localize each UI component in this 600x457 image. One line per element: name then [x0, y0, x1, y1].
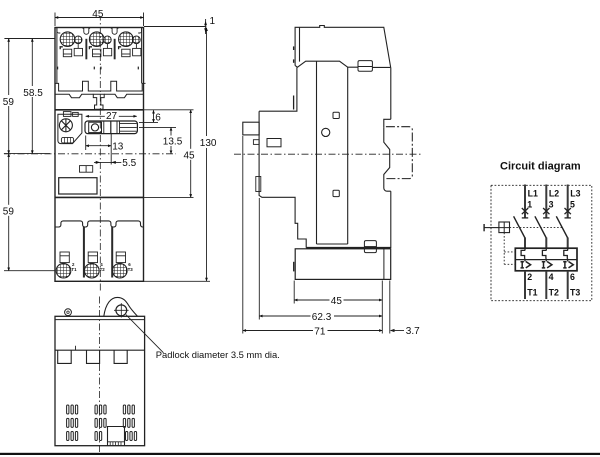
padlock hole — [116, 305, 127, 316]
svg-text:T3: T3 — [570, 288, 580, 298]
magnetic release pole1 — [521, 262, 531, 268]
clamp plate 3b — [103, 48, 111, 55]
din rail phantom — [386, 127, 412, 179]
side left edge nub b — [293, 59, 295, 62]
pole T1 wire lower — [524, 271, 526, 299]
dim 1 text — [210, 16, 216, 27]
nameplate label — [61, 137, 73, 143]
lower comb profile — [55, 221, 143, 227]
side extension x259.3 — [258, 198, 260, 320]
panel section line — [55, 109, 144, 111]
pole L1 wire mid — [524, 238, 526, 249]
label L2 — [549, 188, 559, 198]
dim 5.5 arrows — [96, 161, 116, 164]
mechanism box — [499, 222, 510, 233]
padlock tab arch — [104, 297, 138, 316]
top clip slot right edge — [138, 28, 141, 34]
band line left — [316, 61, 318, 244]
slider button frame — [89, 122, 102, 132]
side front face upper — [259, 28, 299, 112]
top clip hook 2 — [111, 28, 119, 35]
band hole bottom — [333, 190, 339, 196]
slider scale divider 1 — [103, 121, 105, 133]
L2 stamp — [89, 47, 92, 49]
side left edge nub a — [293, 46, 295, 50]
dim 59 lower text — [2, 205, 16, 218]
svg-text:71: 71 — [314, 327, 326, 338]
dim 45 side text — [330, 295, 344, 307]
dim 62.3 text — [311, 311, 335, 323]
linkage dotted stub magnetic — [504, 263, 515, 265]
pole L3 wire mid — [567, 238, 569, 249]
bottom view body — [55, 316, 145, 445]
linkage dotted stub thermal — [504, 251, 515, 253]
dim 45 top text — [90, 9, 109, 20]
svg-text:58.5: 58.5 — [23, 88, 43, 99]
dim 71 text — [313, 325, 328, 337]
dim 3.7 arrow — [390, 329, 395, 332]
dim 13 text — [112, 142, 124, 153]
vent slots group 3 — [123, 405, 136, 441]
bottom screw 6 — [113, 263, 128, 278]
contact cross pole2 — [543, 208, 549, 214]
contact bar pole1 — [522, 217, 528, 219]
SIDE VIEW — [234, 26, 421, 338]
inner side wall left — [56, 28, 58, 83]
terminal 6 — [570, 272, 575, 282]
breaker body outline front view — [55, 28, 144, 282]
slider scale marks — [120, 124, 137, 132]
bottom clamp 2 — [60, 252, 69, 263]
terminal 3 — [549, 200, 554, 210]
lower body inner line — [383, 249, 385, 280]
svg-text:Circuit diagram: Circuit diagram — [500, 160, 581, 172]
svg-text:45: 45 — [184, 151, 196, 162]
padlock leader line — [126, 315, 164, 353]
terminal screw 5 — [119, 32, 134, 47]
right edge lower — [390, 191, 392, 248]
bottom centerline — [99, 297, 101, 453]
thermal element pole3 — [564, 248, 568, 261]
current setting slider window — [85, 121, 137, 134]
contact bar pole2 — [543, 217, 549, 219]
dim 1 tick line — [205, 19, 207, 34]
vent slots group 1 — [67, 405, 78, 441]
dim 45 right extension bottom — [144, 196, 194, 198]
dim 3.7 text — [406, 326, 420, 337]
dim 6 text — [155, 113, 161, 124]
center I-beam latch — [93, 94, 104, 109]
mechanism handle bar — [483, 224, 485, 231]
page border bottom — [0, 453, 600, 455]
bottom clamp 4 — [88, 252, 97, 263]
svg-text:5.5: 5.5 — [122, 158, 136, 169]
notch pocket 2 — [87, 350, 100, 363]
svg-text:L1: L1 — [528, 188, 538, 198]
dim 59 upper extension — [4, 38, 55, 40]
side extension x389.8 — [389, 281, 391, 334]
padlock note text — [156, 349, 280, 360]
terminal screw 5b — [133, 36, 141, 44]
band hole circle — [322, 128, 330, 136]
dim 6 tick — [153, 110, 155, 122]
terminal screw 3b — [104, 36, 112, 44]
hinge marks lower — [293, 262, 295, 272]
dim 59 lower line — [8, 154, 10, 271]
dim 45 top line — [55, 17, 144, 19]
rotary knob housing — [58, 114, 82, 143]
svg-text:3.7: 3.7 — [406, 326, 420, 337]
pole L2 wire mid — [545, 238, 547, 249]
slider scale divider 4 — [119, 121, 121, 133]
svg-text:45: 45 — [331, 296, 343, 307]
svg-text:6: 6 — [155, 113, 161, 124]
L3 stamp — [119, 47, 122, 49]
dim 59 upper text — [2, 95, 16, 108]
dim 59 upper line — [8, 39, 10, 154]
bottom section line — [55, 349, 145, 351]
svg-text:L2: L2 — [549, 188, 559, 198]
dim 45 side line — [294, 299, 382, 301]
mechanism actuator line — [484, 227, 499, 229]
switch blade pole2 — [535, 216, 546, 238]
circuit boundary dashed box — [491, 185, 592, 300]
lower body block — [295, 249, 391, 280]
svg-text:59: 59 — [3, 207, 15, 218]
contact cross pole1 — [522, 208, 528, 214]
svg-text:T1: T1 — [527, 288, 537, 298]
dim 13 extension left — [85, 136, 87, 151]
relay box divider — [515, 259, 577, 261]
svg-text:62.3: 62.3 — [312, 312, 332, 323]
dim 45 top extension lines — [55, 13, 144, 27]
window aperture — [59, 178, 97, 194]
rotary reset knob — [59, 119, 72, 132]
vent slots group 2 — [95, 405, 106, 441]
top clip hook 1 — [83, 28, 91, 35]
stepped cover profile lower — [55, 94, 144, 97]
svg-text:T3: T3 — [128, 267, 134, 272]
dim 5.5 line — [94, 161, 121, 163]
svg-text:45: 45 — [92, 9, 104, 20]
side centerline — [234, 153, 421, 155]
contact bar pole3 — [565, 217, 571, 219]
dim 58.5 text — [22, 86, 44, 99]
clamp plate 5b — [133, 48, 141, 55]
dim 130 extension bottom — [144, 280, 210, 282]
svg-text:T2: T2 — [549, 288, 559, 298]
bottom screw 2 — [56, 263, 71, 278]
terminal number tick 5 — [137, 67, 139, 70]
label L1 — [528, 188, 538, 198]
clamp plate 1b — [74, 48, 82, 55]
small boss circle — [65, 309, 72, 316]
side extension x294.2 — [293, 281, 295, 304]
magnetic release pole3 — [563, 262, 573, 268]
label T2 — [549, 288, 559, 298]
overload relay box — [515, 248, 577, 271]
dim 3.7 tail — [392, 330, 404, 332]
dim 130 text — [198, 136, 217, 149]
thermal element pole1 — [521, 248, 525, 261]
terminal screw 3 — [89, 32, 104, 47]
lower barrier bar 2 — [111, 227, 113, 278]
svg-text:Padlock diameter 3.5 mm dia.: Padlock diameter 3.5 mm dia. — [156, 349, 280, 360]
dim 13.5 line — [170, 127, 172, 153]
terminal 5 — [570, 200, 575, 210]
svg-text:13: 13 — [112, 142, 124, 153]
FRONT DIMS — [2, 9, 217, 282]
slider button circle — [91, 124, 98, 131]
dim 1 arrows — [205, 26, 207, 28]
side extension x242.8 — [242, 136, 244, 334]
linkage dotted horizontal — [510, 227, 563, 229]
dim 1 extension line — [144, 26, 206, 28]
svg-text:130: 130 — [200, 138, 217, 149]
band line right — [347, 67, 349, 244]
side extension x382.3 — [381, 281, 383, 334]
slider scale divider 2 — [110, 121, 112, 133]
screw hole front block — [267, 139, 281, 147]
dim 13 line — [86, 145, 112, 147]
wire entry box — [108, 427, 125, 446]
section tick — [75, 346, 77, 350]
pole T3 wire lower — [567, 271, 569, 299]
terminal lug side — [243, 122, 259, 135]
label L3 — [570, 188, 580, 198]
CIRCUIT DIAGRAM — [484, 160, 592, 300]
vertical centerline — [99, 14, 101, 293]
top clip slot left edge — [57, 28, 60, 34]
notch pocket 3 — [114, 350, 127, 363]
din clip profile — [384, 128, 391, 191]
L1 stamp — [60, 47, 63, 49]
pole L2 wire upper — [545, 185, 547, 218]
lower section line — [55, 196, 144, 198]
svg-text:T1: T1 — [71, 267, 77, 272]
dim 59 bottom extension — [4, 270, 55, 272]
terminal number tick 1 — [57, 67, 59, 70]
inner side wall right — [141, 28, 143, 83]
band bottom — [317, 243, 348, 245]
side front face vertical — [259, 111, 306, 248]
slider scale divider 3 — [116, 121, 118, 133]
pole L3 wire upper — [567, 185, 569, 218]
hinge marks front — [293, 96, 295, 110]
svg-text:2: 2 — [527, 272, 532, 282]
extension line x111 — [110, 134, 112, 165]
side front slope — [295, 61, 390, 67]
test button pair — [80, 166, 93, 173]
magnetic release pole2 — [542, 262, 552, 268]
terminal label 6 T3 — [128, 262, 134, 272]
stepped cover profile upper — [55, 81, 146, 91]
dim 45 right text — [183, 149, 197, 162]
top latch clip — [358, 61, 372, 72]
bottom screw 4 — [85, 263, 100, 278]
knob slot cross — [61, 119, 70, 132]
phase barrier bar 2 — [114, 39, 116, 60]
linkage dotted vertical — [503, 233, 505, 265]
svg-text:1: 1 — [210, 16, 216, 27]
din rail hook top — [384, 119, 391, 128]
bottom view top inner line — [55, 319, 145, 321]
lug tab small — [253, 140, 259, 145]
dim 45 right line — [190, 110, 192, 198]
dim 45 right extension top — [144, 109, 194, 111]
label T1 — [527, 288, 537, 298]
mechanism box cross — [499, 222, 510, 233]
BOTTOM VIEW — [55, 297, 280, 453]
dim 62.3 line — [259, 315, 382, 317]
dim 5.5 text — [122, 158, 136, 169]
dim 27 text — [105, 111, 119, 123]
terminal screw 1b — [74, 36, 82, 44]
dim 130 line — [206, 28, 208, 281]
horizontal centerline — [4, 153, 176, 155]
terminal label 2 T1 — [71, 262, 77, 272]
clamp plate 3a — [93, 49, 101, 57]
terminal label 4 T2 — [100, 262, 106, 272]
terminal number tick 3 — [94, 67, 101, 70]
notch pocket 1 — [58, 350, 71, 363]
body bottom bold line — [306, 247, 391, 249]
dim 58.5 line — [31, 39, 33, 154]
padlock hole cross — [114, 303, 129, 317]
FRONT VIEW — [4, 14, 176, 293]
pole L1 wire upper — [524, 185, 526, 218]
svg-text:4: 4 — [549, 272, 554, 282]
switch blade pole3 — [556, 216, 567, 238]
terminal 4 — [549, 272, 554, 282]
svg-text:13.5: 13.5 — [163, 137, 183, 148]
side body outline top — [295, 26, 391, 120]
bottom latch clip — [364, 241, 376, 253]
rotary knob tab b — [73, 112, 79, 116]
contact cross pole3 — [565, 208, 571, 214]
phase barrier bar 1 — [85, 39, 87, 60]
clamp plate 5a — [122, 49, 130, 57]
clamp plate 1a — [63, 49, 71, 57]
pole T2 wire lower — [545, 271, 547, 299]
bottom clamp 6 — [116, 252, 125, 263]
band hole top — [333, 112, 339, 118]
terminal 2 — [527, 272, 532, 282]
rotary knob tab a — [63, 112, 71, 117]
wire entry comb — [108, 442, 125, 446]
thermal element pole2 — [542, 248, 546, 261]
screw stems — [78, 44, 136, 49]
dim 71 line — [243, 330, 382, 332]
dim 13.5 text — [162, 136, 184, 148]
lower barrier bar 1 — [83, 227, 85, 278]
lower front tab — [256, 177, 261, 192]
small boss inner — [67, 311, 69, 313]
dim 59 mid extension — [4, 153, 50, 155]
svg-text:59: 59 — [3, 97, 15, 108]
svg-text:L3: L3 — [570, 188, 580, 198]
slider edge extension lines right — [139, 122, 176, 127]
switch blade pole1 — [514, 216, 525, 238]
svg-text:27: 27 — [106, 111, 118, 122]
label T3 — [570, 288, 580, 298]
terminal 1 — [527, 200, 532, 210]
dim 27 line — [86, 115, 137, 117]
svg-text:6: 6 — [570, 272, 575, 282]
circuit diagram title — [500, 160, 581, 172]
terminal screw 1 — [60, 32, 75, 47]
